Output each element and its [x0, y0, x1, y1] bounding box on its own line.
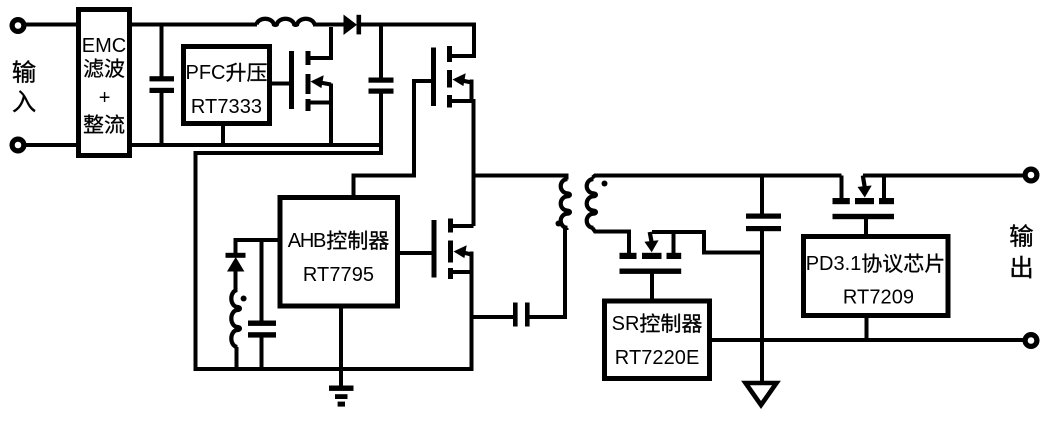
terminal IN+ [12, 20, 24, 32]
block U1 EMC filter+rectifier [79, 10, 130, 156]
transistor Q1 drain bar [306, 51, 311, 65]
capacitor C2 bulk [369, 78, 394, 83]
wire resonant cap lead [472, 315, 514, 319]
transistor Q4 body arrow [650, 232, 652, 244]
svg-text:PFC: PFC [186, 62, 226, 84]
capacitor C5 lead [260, 240, 264, 321]
wire Q1 source [308, 103, 331, 146]
capacitor C4 output [746, 214, 781, 219]
transistor Q2 HS gate bar [431, 48, 436, 107]
wire PFC gnd pin [221, 124, 225, 145]
transistor Q2 drain bar [447, 46, 452, 62]
wire L1 to D1 [313, 23, 344, 27]
wire Q5 drain riser [840, 176, 844, 200]
capacitor C2 bottom lead [379, 93, 383, 155]
wire primary gnd rail [194, 367, 474, 371]
label 输入 [13, 60, 36, 83]
transistor Q1 gate bar [289, 51, 294, 109]
wire secondary top rail [593, 176, 842, 178]
svg-text:RT7220E: RT7220E [615, 347, 700, 369]
inductor L2 aux winding [231, 290, 240, 347]
wire aux node [234, 238, 279, 242]
wire Q1 drain riser [308, 27, 331, 58]
svg-text:EMC: EMC [82, 35, 126, 57]
wire C3 to primary bottom [530, 228, 566, 317]
wire D1 to HS drain [361, 25, 474, 59]
transistor Q5 source bar [879, 198, 894, 204]
transformer T1 secondary [587, 179, 596, 228]
transistor Q4 body bar [642, 253, 662, 259]
transistor Q3 drain bar [448, 219, 453, 233]
svg-text:PD3.1: PD3.1 [806, 253, 862, 275]
transistor Q5 body bar [855, 198, 874, 204]
node aux dot [241, 296, 247, 302]
diode D2 aux [234, 240, 238, 254]
terminal OUT+ [1025, 169, 1037, 181]
block U2 PFC boost RT7333 [184, 47, 270, 124]
wire gnd stem [760, 340, 764, 383]
capacitor C4 top lead [760, 175, 764, 214]
ground primary [329, 386, 354, 391]
diode D1 boost [344, 15, 358, 36]
terminal OUT- [1025, 335, 1037, 347]
wire Q2 source [450, 99, 474, 103]
wire IN- to EMC [23, 143, 80, 147]
node primary dot [556, 221, 562, 227]
svg-text:RT7333: RT7333 [191, 96, 262, 118]
wire Q4 gate pin [650, 273, 654, 300]
transistor Q2 body bar [447, 70, 452, 88]
wire bottom rail [132, 143, 381, 147]
transistor Q3 gate bar [432, 220, 437, 278]
wire PD gnd pin [865, 318, 869, 340]
svg-text:RT7209: RT7209 [843, 287, 914, 309]
transistor Q2 body arrow [462, 81, 472, 83]
capacitor C5 bottom lead [260, 337, 264, 369]
node secondary dot [602, 181, 608, 187]
transistor Q3 body bar [448, 241, 453, 263]
wire Q3 gate wire [399, 251, 432, 255]
wire IN+ to EMC [23, 23, 80, 27]
capacitor C3 resonant [513, 303, 518, 327]
transistor Q3 body arrow [463, 253, 472, 255]
terminal IN- [12, 139, 24, 151]
svg-text:SR: SR [612, 313, 640, 335]
capacitor C1 [150, 76, 175, 81]
capacitor C1 bottom lead [160, 92, 164, 145]
wire Q5 source [882, 176, 886, 200]
transistor Q1 body bar [306, 74, 311, 94]
transformer T1 primary [565, 174, 569, 180]
transistor Q2 source bar [447, 95, 452, 108]
wire Q2 drain [450, 54, 475, 58]
label 输出 [1010, 224, 1033, 247]
transistor Q1 body arrow [320, 83, 331, 85]
capacitor C2 bulk top lead [379, 24, 383, 78]
block U4 SR controller RT7220E [605, 301, 710, 379]
transistor Q4 gate bar [620, 269, 682, 274]
transistor Q5 body arrow [863, 176, 865, 190]
inductor L1 boost [257, 19, 315, 25]
svg-text:AHB: AHB [288, 230, 327, 252]
wire Q5 gate pin [864, 218, 868, 236]
svg-text:+: + [99, 87, 111, 109]
transistor Q4 source bar [667, 253, 682, 259]
transistor Q5 gate bar [833, 214, 895, 219]
transistor Q3 source bar [448, 268, 453, 279]
capacitor C1 top lead [160, 24, 164, 77]
wire Q3 drain [451, 224, 474, 228]
svg-text:RT7795: RT7795 [303, 264, 374, 286]
wire left sense rail [196, 153, 382, 369]
transistor Q4 drain bar [620, 253, 637, 259]
wire output gnd rail [710, 338, 1026, 342]
wire secondary bottom [593, 228, 630, 254]
ground output [746, 383, 777, 405]
wire rectified + rail [132, 23, 257, 27]
wire output + rail [863, 174, 1026, 178]
wire Q4 source [672, 232, 676, 254]
wire Q3 source to gnd rail [451, 270, 472, 274]
transistor Q1 source bar [306, 99, 311, 111]
transistor Q5 drain bar [833, 198, 850, 204]
capacitor C5 aux [248, 321, 276, 326]
block U5 PD3.1 RT7209 [804, 237, 949, 316]
wire AHB gnd pin [339, 308, 343, 386]
wire L2 to gnd rail [235, 347, 239, 369]
wire Q2 gate drive [354, 81, 432, 197]
capacitor C4 bottom lead [760, 231, 764, 340]
node switch mid [472, 99, 476, 226]
wire node to primary [472, 174, 567, 178]
transistor Q1 gate wire [272, 82, 290, 86]
block U3 AHB controller RT7795 [280, 198, 398, 307]
